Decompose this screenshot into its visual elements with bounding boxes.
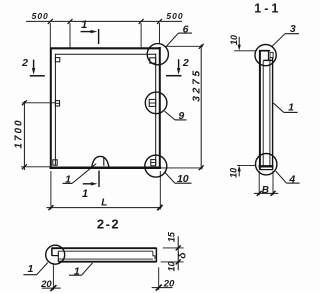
- svg-text:500: 500: [32, 11, 49, 21]
- svg-text:1: 1: [81, 19, 87, 31]
- svg-text:4: 4: [288, 173, 295, 185]
- svg-text:10: 10: [167, 261, 177, 271]
- svg-text:15: 15: [166, 231, 176, 242]
- svg-text:1700: 1700: [14, 118, 25, 148]
- svg-text:1: 1: [27, 263, 33, 275]
- svg-text:3: 3: [290, 23, 296, 35]
- svg-text:1: 1: [288, 102, 294, 114]
- svg-text:20: 20: [40, 279, 52, 290]
- svg-text:6: 6: [183, 23, 189, 35]
- svg-text:L: L: [101, 198, 107, 209]
- svg-text:2: 2: [21, 57, 28, 69]
- svg-text:B: B: [262, 185, 269, 196]
- svg-text:1-1: 1-1: [254, 1, 281, 15]
- svg-text:2-2: 2-2: [97, 216, 120, 231]
- svg-text:10: 10: [177, 173, 189, 185]
- svg-text:3275: 3275: [191, 68, 203, 102]
- svg-text:20: 20: [163, 279, 175, 290]
- svg-text:10: 10: [229, 35, 239, 45]
- svg-text:9: 9: [178, 110, 184, 122]
- svg-text:1: 1: [65, 174, 71, 186]
- svg-text:δ: δ: [176, 252, 188, 259]
- svg-text:10: 10: [228, 168, 238, 178]
- svg-text:1: 1: [82, 188, 88, 200]
- svg-text:500: 500: [166, 11, 183, 21]
- svg-text:2: 2: [182, 57, 189, 69]
- svg-text:1: 1: [74, 266, 80, 278]
